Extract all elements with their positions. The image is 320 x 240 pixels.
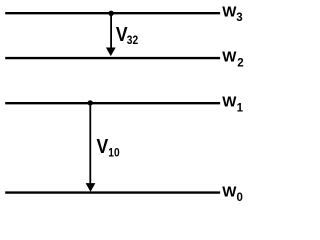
label W2 xyxy=(222,48,243,69)
svg-text:W: W xyxy=(222,93,237,110)
label V32 xyxy=(116,23,128,45)
svg-text:10: 10 xyxy=(108,147,119,160)
svg-text:W: W xyxy=(222,3,237,20)
label W1 xyxy=(222,93,243,114)
svg-text:W: W xyxy=(222,48,237,65)
svg-text:V: V xyxy=(97,135,109,157)
label W3 xyxy=(222,3,242,24)
svg-text:0: 0 xyxy=(237,192,243,204)
energy level line W2 xyxy=(5,57,220,59)
energy level line W0 xyxy=(5,191,220,193)
node dot on W1 xyxy=(88,100,93,105)
energy level line W1 xyxy=(5,102,220,104)
svg-text:3: 3 xyxy=(236,12,242,24)
energy level line W3 xyxy=(5,12,220,14)
svg-text:32: 32 xyxy=(127,34,138,47)
label W0 xyxy=(222,184,243,204)
node dot on W3 xyxy=(108,11,113,16)
svg-text:2: 2 xyxy=(237,57,243,69)
transition arrow V32 xyxy=(106,13,116,56)
transition arrow V10 xyxy=(86,103,96,192)
label V10 xyxy=(97,135,109,157)
svg-text:W: W xyxy=(222,184,237,201)
svg-text:1: 1 xyxy=(237,102,244,114)
